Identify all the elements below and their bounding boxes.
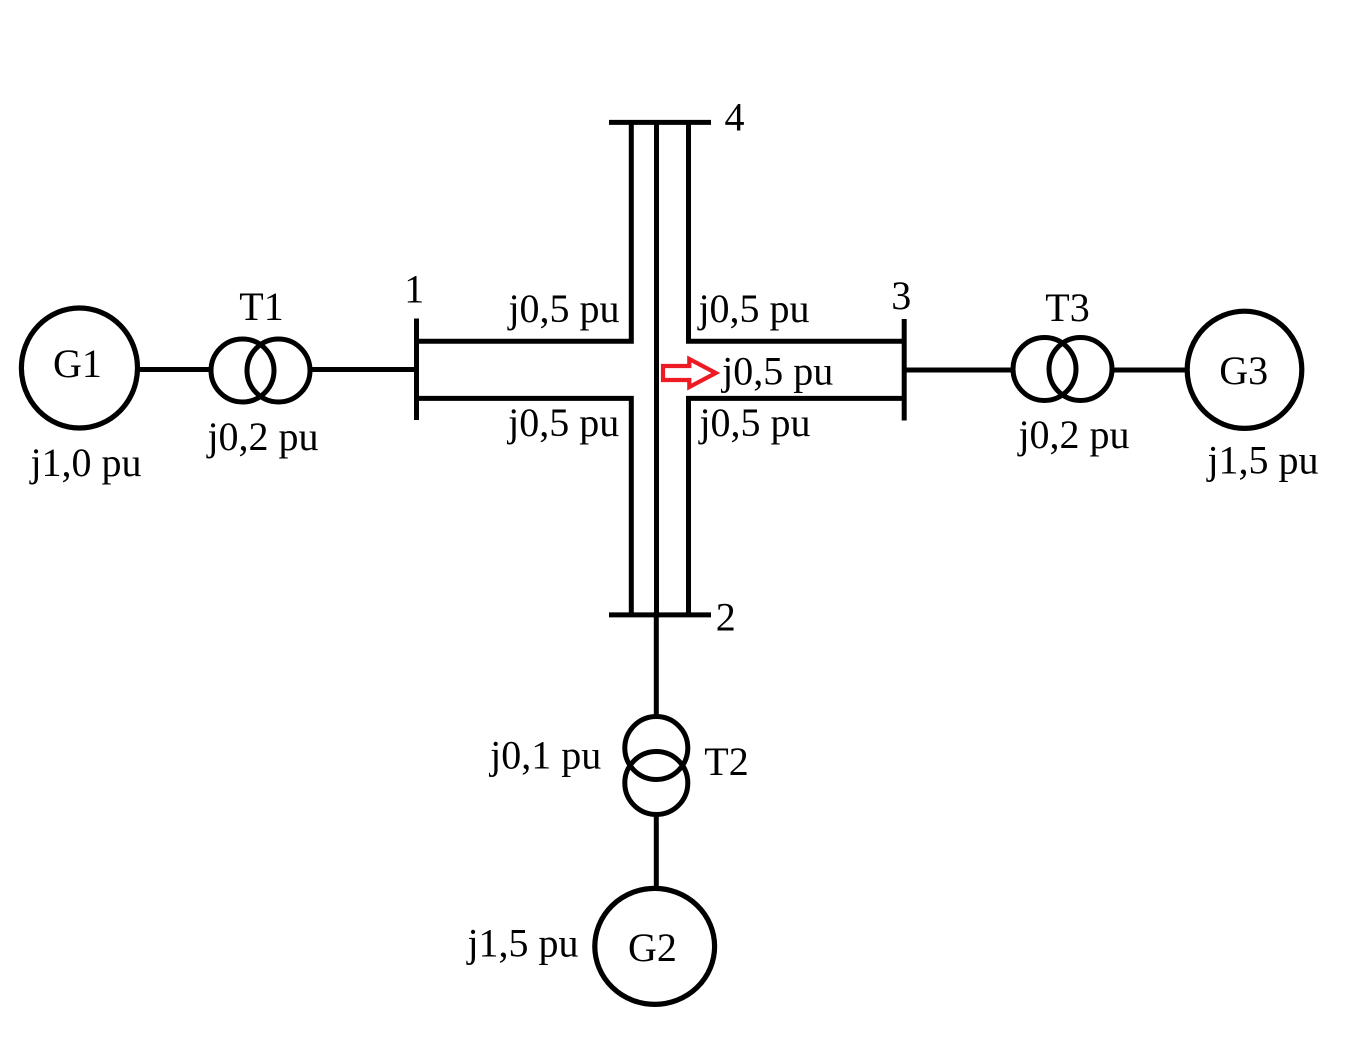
svg-text:T1: T1 (239, 284, 283, 329)
svg-text:T3: T3 (1045, 285, 1089, 330)
wire G1 to T1 (79, 367, 243, 372)
svg-text:3: 3 (891, 273, 911, 318)
line 1-4 (417, 122, 632, 341)
svg-text:j1,0 pu: j1,0 pu (28, 440, 141, 485)
generator G1 (21, 308, 137, 428)
transformer T2 (625, 717, 688, 815)
transformer T3 (1013, 338, 1112, 401)
generator G2 (595, 888, 715, 1004)
line 3-2 (689, 398, 905, 615)
svg-text:j0,5 pu: j0,5 pu (697, 400, 810, 445)
svg-text:j0,5 pu: j0,5 pu (696, 286, 809, 331)
svg-text:4: 4 (725, 95, 745, 140)
wire T3 to G3 (1080, 368, 1247, 373)
wire T1 to bus 1 (277, 367, 417, 372)
bus 1 (414, 319, 419, 421)
wire T2 to G2 (654, 780, 659, 946)
wire bus 2 to T2 (654, 615, 659, 750)
wire bus 3 to T3 (904, 368, 1046, 373)
flow arrow (663, 359, 716, 387)
line 3-4 (689, 122, 905, 341)
svg-text:1: 1 (404, 267, 424, 312)
svg-text:G1: G1 (53, 341, 102, 386)
line 1-2 (417, 398, 632, 615)
svg-text:j0,2 pu: j0,2 pu (205, 414, 318, 459)
svg-text:j0,5 pu: j0,5 pu (720, 349, 833, 394)
svg-text:j1,5 pu: j1,5 pu (1205, 438, 1318, 483)
bus 2 (609, 612, 711, 617)
bus 4 (609, 120, 711, 125)
bus 3 (902, 319, 907, 421)
svg-text:j0,5 pu: j0,5 pu (506, 400, 619, 445)
svg-text:j0,1 pu: j0,1 pu (488, 733, 601, 778)
svg-text:G3: G3 (1219, 348, 1268, 393)
svg-text:T2: T2 (704, 739, 748, 784)
svg-text:2: 2 (716, 595, 736, 640)
generator G3 (1187, 311, 1302, 428)
svg-text:G2: G2 (628, 925, 677, 970)
svg-text:j1,5 pu: j1,5 pu (465, 921, 578, 966)
line 4-2 (654, 122, 659, 615)
svg-text:j0,5 pu: j0,5 pu (506, 286, 619, 331)
svg-text:j0,2 pu: j0,2 pu (1016, 412, 1129, 457)
transformer T1 (211, 339, 310, 402)
